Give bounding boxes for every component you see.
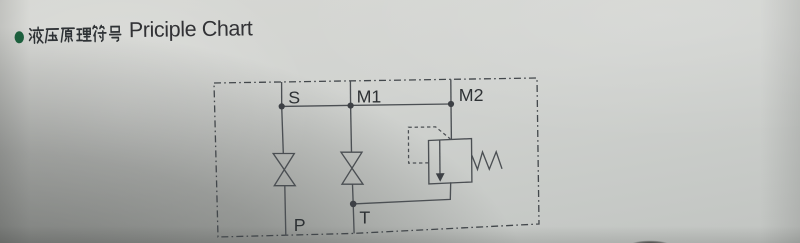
node M2	[448, 101, 454, 107]
relief valve internal flow line	[439, 140, 441, 175]
符	[93, 25, 106, 41]
svg-text:T: T	[359, 208, 370, 228]
液	[29, 27, 43, 43]
svg-text:Priciple Chart: Priciple Chart	[129, 16, 253, 42]
node S	[279, 103, 285, 109]
valve V2 (shut-off, M1 branch)	[341, 152, 363, 184]
理	[77, 28, 91, 41]
原	[61, 28, 74, 42]
relief valve pilot line (dashed)	[408, 127, 450, 163]
svg-text:M2: M2	[459, 85, 484, 105]
wire: S branch lower to P	[285, 186, 286, 236]
wire: M2 branch to relief valve	[450, 104, 452, 140]
wire: top bus S-M1-M2	[282, 104, 451, 106]
wire: relief valve outlet to T node	[353, 182, 451, 204]
svg-text:S: S	[288, 88, 300, 108]
node M1	[348, 103, 354, 109]
relief valve arrowhead	[436, 173, 445, 182]
wire: S branch upper	[282, 106, 284, 153]
relief valve RV1 body	[429, 139, 472, 184]
enclosure border (dash-dot)	[214, 78, 539, 237]
svg-text:M1: M1	[357, 86, 382, 106]
wire: port M1 stub to border	[349, 81, 351, 106]
wire: M1 branch lower to T	[353, 184, 355, 233]
relief valve spring	[472, 152, 502, 170]
svg-text:P: P	[294, 215, 306, 235]
号	[110, 27, 121, 42]
压	[45, 29, 58, 43]
valve V1 (shut-off, S branch)	[273, 154, 295, 186]
node T junction	[350, 201, 357, 208]
wire: port S stub to border	[281, 82, 283, 106]
wire: M1 branch upper	[350, 106, 353, 153]
green bullet	[14, 31, 24, 43]
wire: port M2 stub to border	[450, 79, 452, 104]
chinese title 液压原理符号 (drawn strokes)	[29, 25, 120, 43]
